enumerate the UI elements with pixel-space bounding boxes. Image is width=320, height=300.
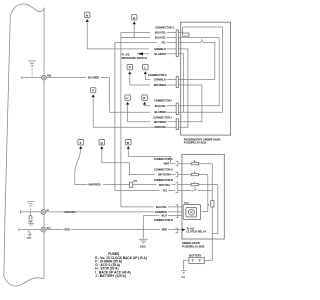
- svg-text:ELD: ELD: [184, 202, 189, 204]
- svg-text:FUSE/RELAY BOX: FUSE/RELAY BOX: [184, 141, 207, 145]
- svg-text:G401: G401: [27, 237, 31, 240]
- svg-text:CONNECTOR C: CONNECTOR C: [154, 157, 173, 161]
- svg-text:RED: RED: [65, 228, 71, 232]
- svg-text:BATTERY: BATTERY: [189, 253, 201, 257]
- svg-text:WHT/RED: WHT/RED: [154, 120, 166, 124]
- svg-text:CONNECTOR J: CONNECTOR J: [153, 115, 172, 119]
- svg-text:CONNECTOR A: CONNECTOR A: [154, 168, 173, 172]
- svg-text:BLU/RED: BLU/RED: [88, 77, 99, 80]
- svg-text:GRN/BLK: GRN/BLK: [154, 77, 166, 81]
- svg-text:P: P: [129, 66, 131, 70]
- svg-text:YEL: YEL: [162, 188, 167, 192]
- svg-text:J : BATTERY (120 A): J : BATTERY (120 A): [95, 274, 126, 278]
- svg-text:BLU/RED: BLU/RED: [154, 110, 166, 114]
- svg-text:BLK: BLK: [162, 214, 167, 218]
- svg-text:PRESSURE SWITCH: PRESSURE SWITCH: [122, 56, 147, 60]
- svg-text:CONNECTOR B: CONNECTOR B: [154, 178, 173, 182]
- svg-text:CONNECTOR D: CONNECTOR D: [154, 218, 173, 222]
- svg-text:BLU/YEL: BLU/YEL: [156, 205, 168, 209]
- svg-text:BLU/YEL: BLU/YEL: [155, 36, 167, 40]
- svg-text:S: S: [80, 141, 82, 145]
- svg-text:WHT/RED: WHT/RED: [154, 83, 166, 87]
- svg-text:FUSE/RELAY BOX: FUSE/RELAY BOX: [182, 244, 205, 248]
- svg-text:WHT/RED: WHT/RED: [89, 183, 101, 187]
- svg-text:GRN/RED: GRN/RED: [155, 210, 167, 214]
- svg-text:WHT: WHT: [164, 162, 170, 166]
- svg-text:N: N: [86, 14, 88, 18]
- svg-text:GRN/BLK: GRN/BLK: [154, 47, 166, 51]
- svg-text:BLU/YEL: BLU/YEL: [155, 31, 167, 35]
- svg-text:L: L: [144, 66, 146, 70]
- svg-text:J: J: [208, 205, 209, 207]
- svg-text:U: U: [126, 96, 128, 100]
- svg-text:YEL: YEL: [161, 40, 166, 44]
- svg-text:BLK/YEL: BLK/YEL: [155, 104, 167, 108]
- svg-text:CONNECTOR C: CONNECTOR C: [155, 26, 174, 30]
- svg-text:RED: RED: [162, 228, 168, 232]
- svg-text:A05: A05: [47, 75, 52, 78]
- svg-text:BLU/RED: BLU/RED: [154, 52, 166, 56]
- svg-text:CONNECTOR A: CONNECTOR A: [148, 73, 167, 77]
- svg-text:WHT/YEL: WHT/YEL: [159, 183, 171, 187]
- svg-text:CLUTCH RELAY: CLUTCH RELAY: [186, 230, 206, 234]
- svg-text:GRN/RED: GRN/RED: [64, 210, 76, 214]
- svg-text:G201: G201: [140, 246, 147, 249]
- svg-text:CONNECTOR I: CONNECTOR I: [154, 99, 172, 103]
- svg-text:WHT/GRN: WHT/GRN: [158, 173, 171, 177]
- svg-text:V: V: [92, 89, 94, 93]
